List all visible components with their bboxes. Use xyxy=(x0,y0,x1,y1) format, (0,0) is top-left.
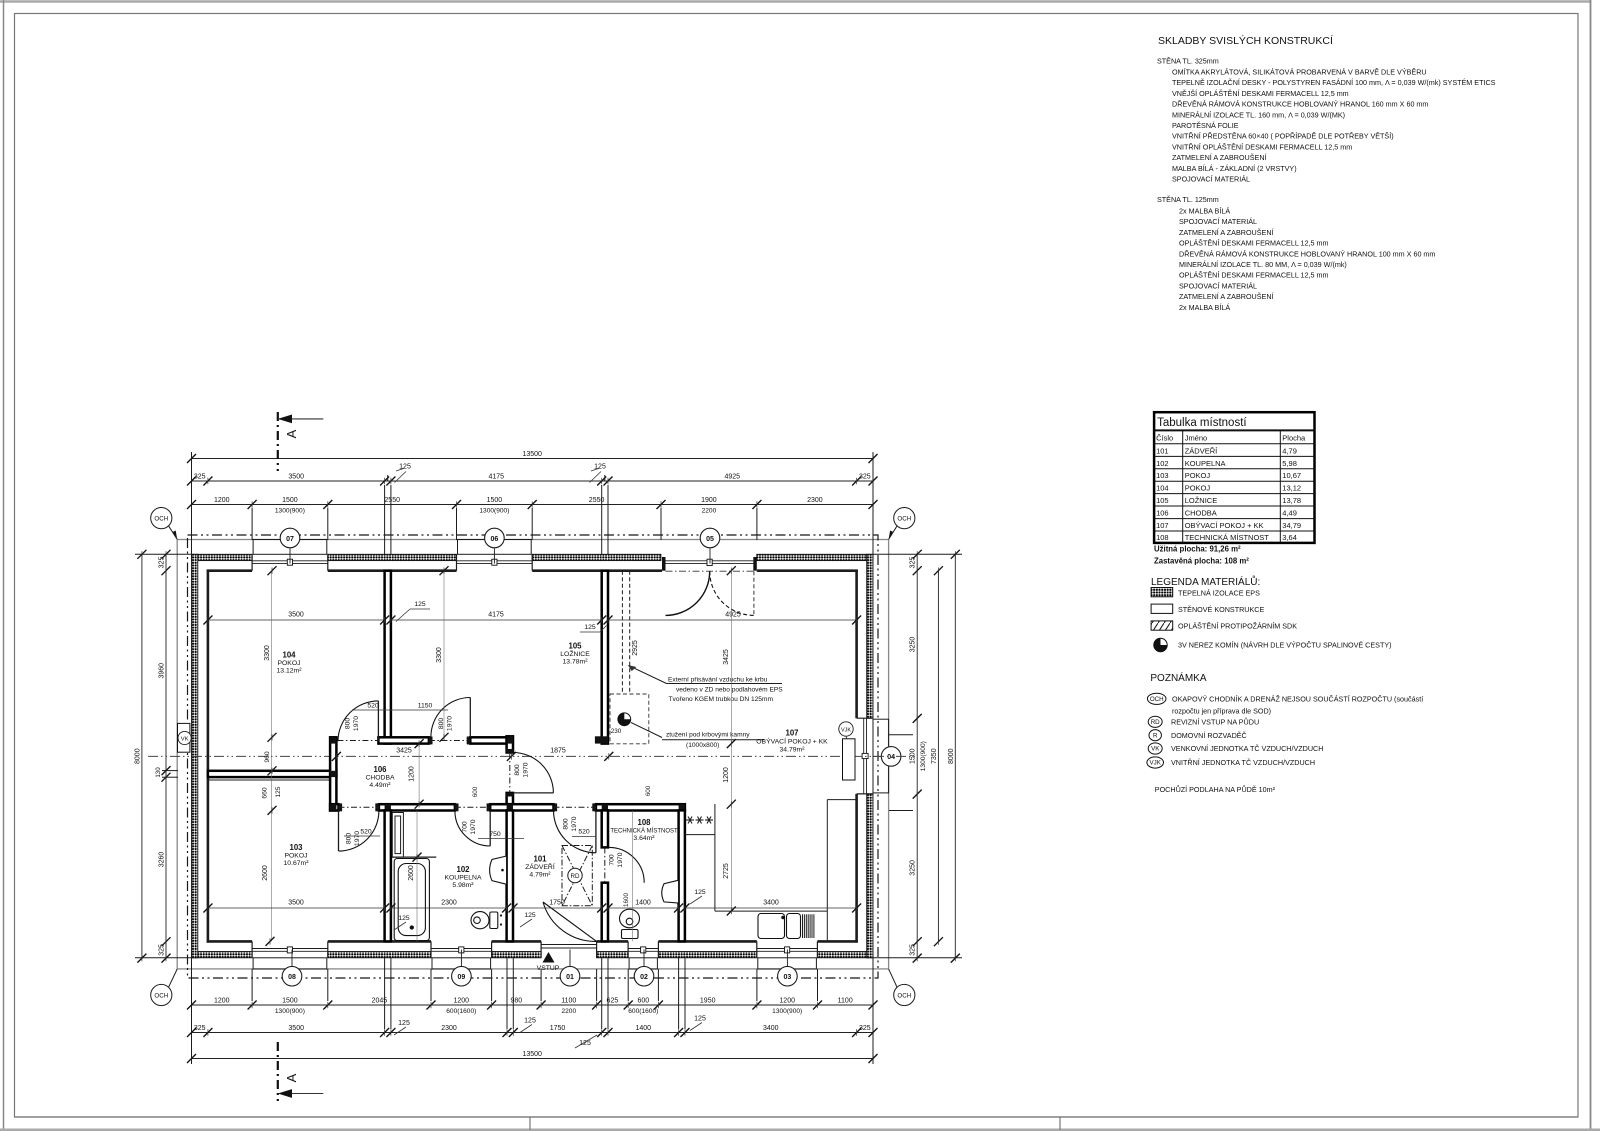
dim 600 labels xyxy=(472,785,652,797)
svg-text:101: 101 xyxy=(533,855,547,864)
wall W2 bottom cap xyxy=(595,736,608,743)
svg-text:PAROTĚSNÁ FOLIE: PAROTĚSNÁ FOLIE xyxy=(1172,121,1239,130)
svg-text:106: 106 xyxy=(1156,508,1169,517)
svg-text:OCH: OCH xyxy=(154,516,168,523)
svg-text:1970: 1970 xyxy=(617,852,624,867)
svg-text:2550: 2550 xyxy=(384,497,400,504)
svg-text:OCH: OCH xyxy=(897,993,911,1000)
door to room 104 xyxy=(338,701,378,741)
room label 107 xyxy=(756,729,828,754)
svg-text:09: 09 xyxy=(458,974,466,981)
french door right leaf arc dashed xyxy=(710,571,754,615)
svg-text:125: 125 xyxy=(398,1020,410,1027)
svg-text:800: 800 xyxy=(514,764,521,776)
wall junction blacks xyxy=(330,736,685,810)
RD cabinet dash-dot with cross xyxy=(562,846,592,906)
svg-text:POKOJ: POKOJ xyxy=(284,853,307,860)
svg-text:106: 106 xyxy=(373,765,387,774)
svg-text:3300: 3300 xyxy=(264,645,271,661)
svg-text:750: 750 xyxy=(489,831,501,838)
dimension extension lines xyxy=(135,452,962,1064)
svg-text:A: A xyxy=(284,429,299,438)
svg-text:CHODBA: CHODBA xyxy=(1185,508,1217,517)
svg-text:MALBA BÍLÁ - ZÁKLADNÍ (2 VRSTV: MALBA BÍLÁ - ZÁKLADNÍ (2 VRSTVY) xyxy=(1172,164,1297,173)
VK outdoor unit left xyxy=(178,723,192,752)
svg-text:1400: 1400 xyxy=(635,900,651,907)
svg-text:1200: 1200 xyxy=(723,767,730,783)
room table header xyxy=(1156,434,1306,443)
svg-text:13.78m²: 13.78m² xyxy=(563,659,589,666)
svg-text:3250: 3250 xyxy=(910,637,917,653)
svg-text:REVIZNÍ VSTUP NA PŮDU: REVIZNÍ VSTUP NA PŮDU xyxy=(1171,718,1259,727)
svg-text:VENKOVNÍ JEDNOTKA TČ VZDUCH/VZ: VENKOVNÍ JEDNOTKA TČ VZDUCH/VZDUCH xyxy=(1171,744,1323,753)
wall composition 325mm text block xyxy=(1157,57,1496,184)
corridor west wall xyxy=(330,737,336,810)
svg-text:LOŽNICE: LOŽNICE xyxy=(1185,496,1218,505)
svg-text:VJK: VJK xyxy=(1150,760,1162,767)
OCH circle top right with leader xyxy=(889,507,915,539)
svg-text:2300: 2300 xyxy=(441,900,457,907)
svg-text:1200: 1200 xyxy=(409,766,416,782)
legend fire-protection SDK symbol xyxy=(1151,621,1297,631)
svg-text:TECHNICKÁ MÍSTNOST: TECHNICKÁ MÍSTNOST xyxy=(1185,533,1270,542)
svg-text:1400: 1400 xyxy=(636,1025,652,1032)
washbasin bathroom xyxy=(490,856,507,884)
toilet technical room xyxy=(620,909,640,938)
svg-text:RD: RD xyxy=(571,873,580,880)
wall W1 bottom cap xyxy=(378,736,391,744)
svg-text:125: 125 xyxy=(694,1016,706,1023)
door corridor to living room xyxy=(513,752,553,792)
svg-text:125: 125 xyxy=(414,601,426,608)
svg-text:1950: 1950 xyxy=(700,998,716,1005)
svg-text:230: 230 xyxy=(611,728,622,735)
svg-text:1200: 1200 xyxy=(779,998,795,1005)
svg-text:4175: 4175 xyxy=(489,474,505,481)
svg-text:2600: 2600 xyxy=(262,865,269,881)
legend chimney symbol xyxy=(1154,638,1392,651)
technical room east wall xyxy=(679,810,685,941)
svg-text:2200: 2200 xyxy=(561,1008,576,1015)
window bottom W2 xyxy=(431,950,492,952)
svg-text:STĚNOVÉ KONSTRUKCE: STĚNOVÉ KONSTRUKCE xyxy=(1178,605,1264,614)
dim col right segments xyxy=(910,550,928,963)
dim col right 8000 xyxy=(948,550,960,963)
svg-text:13500: 13500 xyxy=(522,1051,542,1058)
svg-text:OKAPOVÝ CHODNÍK A DRENÁŽ NEJSO: OKAPOVÝ CHODNÍK A DRENÁŽ NEJSOU SOUČÁSTÍ… xyxy=(1172,695,1423,704)
svg-text:8000: 8000 xyxy=(134,748,141,764)
svg-text:600: 600 xyxy=(472,786,479,797)
svg-text:10.67m²: 10.67m² xyxy=(284,860,310,867)
note RD xyxy=(1148,716,1259,727)
svg-text:13500: 13500 xyxy=(522,451,542,458)
dim col left 8000 xyxy=(134,550,146,963)
svg-text:1900: 1900 xyxy=(701,497,717,504)
svg-text:ZÁDVEŘÍ: ZÁDVEŘÍ xyxy=(525,862,555,871)
dim row bottom segments xyxy=(187,1025,878,1037)
door size labels xyxy=(345,716,625,868)
french door open leaf dashed jamb xyxy=(753,571,755,615)
svg-text:800: 800 xyxy=(346,833,353,845)
svg-text:960: 960 xyxy=(264,751,271,763)
svg-text:980: 980 xyxy=(510,998,522,1005)
svg-text:4.49m²: 4.49m² xyxy=(369,782,391,789)
svg-text:4,49: 4,49 xyxy=(1282,508,1297,517)
svg-text:325: 325 xyxy=(910,944,917,956)
svg-text:2200: 2200 xyxy=(702,508,717,515)
kitchen counter outline xyxy=(685,800,857,942)
bathroom-zadveri wall xyxy=(507,810,513,941)
svg-text:1300(900): 1300(900) xyxy=(275,508,305,515)
interior dim bathroom vertical line xyxy=(413,810,422,941)
svg-text:107: 107 xyxy=(1156,521,1169,530)
wall 105-107 W2 xyxy=(602,571,608,744)
svg-text:SPOJOVACÍ MATERIÁL: SPOJOVACÍ MATERIÁL xyxy=(1179,217,1257,226)
window bottom W3 xyxy=(628,950,658,952)
interior dim zadveri 1750-175 xyxy=(509,900,607,928)
svg-text:1100: 1100 xyxy=(561,998,576,1005)
dim row top windows xyxy=(187,497,878,515)
window top W1 xyxy=(252,560,328,562)
svg-text:POKOJ: POKOJ xyxy=(277,660,300,667)
window bottom W4 xyxy=(757,950,818,952)
svg-text:R: R xyxy=(1153,732,1158,739)
dim col left small 130 xyxy=(155,767,162,778)
svg-text:325: 325 xyxy=(159,557,166,569)
svg-text:vedeno v ZD nebo podlahovém EP: vedeno v ZD nebo podlahovém EPS xyxy=(676,687,783,694)
svg-text:SKLADBY SVISLÝCH KONSTRUKCÍ: SKLADBY SVISLÝCH KONSTRUKCÍ xyxy=(1158,34,1333,47)
svg-text:3500: 3500 xyxy=(288,1025,304,1032)
svg-text:2725: 2725 xyxy=(723,863,730,879)
svg-text:RD: RD xyxy=(1151,719,1160,726)
corridor east wall with door stubs xyxy=(507,736,513,804)
svg-text:Tvořeno KGEM trubkou DN 125mm: Tvořeno KGEM trubkou DN 125mm xyxy=(669,696,774,703)
svg-text:07: 07 xyxy=(286,536,294,543)
fireplace stiffening text xyxy=(666,732,750,750)
french door lintel dash-dot xyxy=(666,570,754,572)
exterior wall top hatch band xyxy=(192,554,874,560)
svg-text:MINERÁLNÍ IZOLACE TL. 80 MM, Λ: MINERÁLNÍ IZOLACE TL. 80 MM, Λ = 0,039 W… xyxy=(1179,260,1347,269)
svg-text:1750: 1750 xyxy=(549,900,565,907)
svg-text:1300(900): 1300(900) xyxy=(920,741,927,771)
svg-text:3400: 3400 xyxy=(763,900,779,907)
svg-text:108: 108 xyxy=(637,818,651,827)
svg-text:660: 660 xyxy=(262,787,269,799)
exterior wall inner face bottom xyxy=(207,940,858,943)
svg-text:102: 102 xyxy=(456,865,470,874)
wall 104-103 A xyxy=(208,771,337,777)
svg-text:700: 700 xyxy=(462,821,469,833)
interior dim corridor 1200 xyxy=(409,739,424,809)
svg-text:1600: 1600 xyxy=(623,893,630,908)
svg-text:125: 125 xyxy=(579,1040,591,1047)
svg-text:520: 520 xyxy=(360,829,372,836)
svg-text:ztužení pod krbovými kamny: ztužení pod krbovými kamny xyxy=(666,732,750,739)
window sills outside xyxy=(253,540,889,970)
svg-text:TECHNICKÁ MÍSTNOST: TECHNICKÁ MÍSTNOST xyxy=(610,828,678,835)
entrance VSTUP triangle xyxy=(543,952,555,963)
svg-text:4,79: 4,79 xyxy=(1282,446,1297,455)
bathroom west wall xyxy=(385,810,391,941)
svg-text:4175: 4175 xyxy=(488,612,504,619)
dim row bottom 125 labels xyxy=(394,1016,706,1049)
svg-text:DŘEVĚNÁ RÁMOVÁ KONSTRUKCE HOBL: DŘEVĚNÁ RÁMOVÁ KONSTRUKCE HOBLOVANÝ HRAN… xyxy=(1172,100,1428,109)
svg-text:105: 105 xyxy=(1156,496,1169,505)
svg-text:108: 108 xyxy=(1156,533,1169,542)
svg-text:3300: 3300 xyxy=(436,647,443,663)
svg-text:800: 800 xyxy=(345,718,352,730)
note VJK xyxy=(1147,757,1315,768)
interior dim technical vertical line xyxy=(632,811,634,942)
svg-text:VNITŘNÍ JEDNOTKA TČ VZDUCH/VZD: VNITŘNÍ JEDNOTKA TČ VZDUCH/VZDUCH xyxy=(1171,758,1315,767)
svg-text:TEPELNĚ IZOLAČNÍ DESKY - POLYS: TEPELNĚ IZOLAČNÍ DESKY - POLYSTYREN FASÁ… xyxy=(1172,78,1496,87)
svg-text:3500: 3500 xyxy=(288,474,304,481)
window top W2 xyxy=(457,560,533,562)
svg-text:5,98: 5,98 xyxy=(1282,459,1297,468)
svg-text:05: 05 xyxy=(706,536,714,543)
svg-text:600: 600 xyxy=(645,785,652,796)
door to room 105 xyxy=(431,698,470,737)
dim 1150 label xyxy=(391,703,448,711)
OCH circle bottom right with leader xyxy=(889,969,915,1006)
interior dim chain x731 xyxy=(723,566,736,915)
svg-text:125: 125 xyxy=(524,912,536,919)
svg-text:TEPELNÁ IZOLACE EPS: TEPELNÁ IZOLACE EPS xyxy=(1178,589,1260,598)
dim row top 13500 xyxy=(187,451,878,463)
note OCH xyxy=(1147,693,1423,715)
interior dim 125 leaders row xyxy=(396,601,607,632)
svg-text:(1000x800): (1000x800) xyxy=(686,742,719,749)
entrance door swing arc xyxy=(543,902,597,941)
door to room 103 xyxy=(339,811,379,851)
OCH drainage dash-dot boundary xyxy=(188,535,879,978)
interior vertical dim 105 3300 xyxy=(436,566,449,742)
svg-text:101: 101 xyxy=(1156,446,1169,455)
svg-text:OCH: OCH xyxy=(154,993,168,1000)
kitchen stove symbol xyxy=(686,817,713,824)
svg-text:Externí přisávání vzduchu ke k: Externí přisávání vzduchu ke krbu xyxy=(668,677,768,684)
svg-text:125: 125 xyxy=(584,624,596,631)
svg-text:1875: 1875 xyxy=(550,748,566,755)
svg-text:3260: 3260 xyxy=(159,852,166,868)
svg-text:LOŽNICE: LOŽNICE xyxy=(560,649,590,658)
exterior wall bottom hatch band xyxy=(192,952,874,958)
wall 104-105 W1 xyxy=(385,571,391,744)
svg-text:3500: 3500 xyxy=(288,900,304,907)
svg-text:ZATMELENÍ A ZABROUŠENÍ: ZATMELENÍ A ZABROUŠENÍ xyxy=(1179,292,1274,301)
svg-text:1100: 1100 xyxy=(838,998,853,1005)
OCH circle bottom left with leader xyxy=(151,969,178,1006)
svg-text:ZÁDVEŘÍ: ZÁDVEŘÍ xyxy=(1185,446,1218,455)
svg-text:3425: 3425 xyxy=(396,748,412,755)
svg-text:LEGENDA MATERIÁLŮ:: LEGENDA MATERIÁLŮ: xyxy=(1151,575,1260,588)
svg-text:103: 103 xyxy=(289,843,303,852)
svg-text:2600: 2600 xyxy=(408,865,415,881)
svg-text:600(1600): 600(1600) xyxy=(628,1008,658,1015)
section marker A top xyxy=(278,412,324,471)
svg-text:8000: 8000 xyxy=(948,748,955,764)
exterior wall left hatch band xyxy=(192,554,198,958)
svg-text:125: 125 xyxy=(694,889,706,896)
french door jambs xyxy=(662,557,757,571)
svg-text:ZATMELENÍ A ZABROUŠENÍ: ZATMELENÍ A ZABROUŠENÍ xyxy=(1172,153,1267,162)
svg-text:125: 125 xyxy=(398,915,410,922)
svg-text:104: 104 xyxy=(1156,484,1169,493)
interior dim room 104 3500 xyxy=(203,612,389,625)
fireplace air supply text xyxy=(668,677,783,704)
svg-text:DOMOVNÍ ROZVADĚČ: DOMOVNÍ ROZVADĚČ xyxy=(1171,731,1247,740)
toilet bathroom xyxy=(471,912,502,929)
svg-text:1500: 1500 xyxy=(282,998,298,1005)
svg-text:2925: 2925 xyxy=(632,640,639,656)
svg-text:13.12m²: 13.12m² xyxy=(277,668,303,675)
svg-text:OBÝVACÍ POKOJ + KK: OBÝVACÍ POKOJ + KK xyxy=(1185,521,1264,530)
svg-text:600: 600 xyxy=(637,998,649,1005)
svg-text:1500: 1500 xyxy=(282,497,298,504)
corner washbasin technical room xyxy=(662,880,679,903)
french door glazing line xyxy=(666,559,754,565)
svg-text:04: 04 xyxy=(887,754,895,761)
svg-text:700: 700 xyxy=(609,854,616,866)
svg-text:CHODBA: CHODBA xyxy=(365,775,395,782)
svg-text:10,67: 10,67 xyxy=(1282,471,1301,480)
svg-text:06: 06 xyxy=(491,536,499,543)
axis dims corridor xyxy=(332,748,613,761)
svg-text:OCH: OCH xyxy=(897,516,911,523)
room table frame xyxy=(1154,412,1314,543)
svg-text:MINERÁLNÍ IZOLACE TL. 160 mm,: MINERÁLNÍ IZOLACE TL. 160 mm, Λ = 0,039 … xyxy=(1172,110,1345,119)
dim row bottom 13500 xyxy=(187,1051,878,1063)
window bottom W1 xyxy=(252,950,328,952)
svg-text:325: 325 xyxy=(910,557,917,569)
svg-text:Užitná plocha: 91,26 m²: Užitná plocha: 91,26 m² xyxy=(1154,545,1241,554)
svg-text:rozpočtu jen příprava dle SOD): rozpočtu jen příprava dle SOD) xyxy=(1172,707,1271,716)
door to bathroom 102 xyxy=(455,811,490,846)
svg-text:1300(900): 1300(900) xyxy=(772,1008,802,1015)
svg-text:KOUPELNA: KOUPELNA xyxy=(1185,459,1226,468)
svg-text:VNITŘNÍ OPLÁŠTĚNÍ DESKAMI FERM: VNITŘNÍ OPLÁŠTĚNÍ DESKAMI FERMACELL 12,5… xyxy=(1172,142,1352,151)
bathroom tall cabinet xyxy=(392,813,436,858)
fireplace annotation leader xyxy=(629,666,782,740)
svg-text:1970: 1970 xyxy=(523,762,530,777)
svg-text:DŘEVĚNÁ RÁMOVÁ KONSTRUKCE HOBL: DŘEVĚNÁ RÁMOVÁ KONSTRUKCE HOBLOVANÝ HRAN… xyxy=(1179,249,1435,258)
svg-text:1300(900): 1300(900) xyxy=(479,508,509,515)
grid circles bottom xyxy=(282,950,797,987)
svg-text:2300: 2300 xyxy=(807,497,823,504)
svg-text:5.98m²: 5.98m² xyxy=(452,882,474,889)
chimney symbol in plan xyxy=(618,713,631,726)
svg-text:SPOJOVACÍ MATERIÁL: SPOJOVACÍ MATERIÁL xyxy=(1179,281,1257,290)
dim col right 7350 xyxy=(931,566,943,946)
svg-text:1200: 1200 xyxy=(214,497,230,504)
svg-text:520: 520 xyxy=(578,829,590,836)
svg-text:13,12: 13,12 xyxy=(1282,484,1301,493)
svg-text:OPLÁŠTĚNÍ DESKAMI FERMACELL 12: OPLÁŠTĚNÍ DESKAMI FERMACELL 12,5 mm xyxy=(1179,239,1329,248)
section marker A bottom xyxy=(278,1042,324,1101)
svg-text:Tabulka místností: Tabulka místností xyxy=(1157,417,1247,429)
bathtub xyxy=(394,859,429,941)
svg-text:34.79m²: 34.79m² xyxy=(780,747,806,754)
svg-text:104: 104 xyxy=(282,651,296,660)
interior dim living 4925 xyxy=(604,612,862,625)
door to technical room 108 xyxy=(609,847,644,882)
svg-text:34,79: 34,79 xyxy=(1282,521,1301,530)
door to zadveri 101 from hall xyxy=(554,810,596,852)
svg-text:3960: 3960 xyxy=(159,663,166,679)
svg-text:VJK: VJK xyxy=(841,727,851,733)
svg-text:1500: 1500 xyxy=(910,748,917,764)
svg-text:2300: 2300 xyxy=(441,1025,457,1032)
svg-text:13,78: 13,78 xyxy=(1282,496,1301,505)
svg-text:1970: 1970 xyxy=(447,716,454,731)
interior dim bathroom 2300 xyxy=(386,900,511,931)
svg-text:3V NEREZ KOMÍN (NÁVRH DLE VÝPO: 3V NEREZ KOMÍN (NÁVRH DLE VÝPOČTU SPALIN… xyxy=(1178,641,1392,650)
dim 750 label xyxy=(478,831,524,839)
svg-text:Číslo: Číslo xyxy=(1156,434,1173,443)
svg-text:103: 103 xyxy=(1156,471,1169,480)
note VK xyxy=(1148,743,1323,754)
dim col left segments xyxy=(159,550,171,963)
svg-text:VNĚJŠÍ OPLÁŠTĚNÍ DESKAMI FERMA: VNĚJŠÍ OPLÁŠTĚNÍ DESKAMI FERMACELL 12,5 … xyxy=(1172,89,1349,98)
svg-text:1970: 1970 xyxy=(353,716,360,731)
interior dim room 103 3500 xyxy=(203,900,389,913)
svg-text:Jméno: Jméno xyxy=(1185,434,1208,443)
svg-text:Plocha: Plocha xyxy=(1282,434,1306,443)
svg-text:7350: 7350 xyxy=(931,748,938,764)
svg-text:1500: 1500 xyxy=(487,497,503,504)
svg-text:OPLÁŠTĚNÍ PROTIPOŽÁRNÍM SDK: OPLÁŠTĚNÍ PROTIPOŽÁRNÍM SDK xyxy=(1178,622,1297,631)
exterior wall inner face top xyxy=(207,569,858,572)
svg-text:1750: 1750 xyxy=(550,1025,566,1032)
grid circles top xyxy=(280,528,720,563)
svg-text:325: 325 xyxy=(159,944,166,956)
svg-text:SPOJOVACÍ MATERIÁL: SPOJOVACÍ MATERIÁL xyxy=(1172,175,1250,184)
svg-text:08: 08 xyxy=(288,974,296,981)
door dim 520 labels xyxy=(344,703,596,837)
svg-text:1150: 1150 xyxy=(418,703,433,710)
svg-text:325: 325 xyxy=(859,1025,871,1032)
chimney duct dashed lines xyxy=(622,571,629,694)
title block top line xyxy=(15,1117,1579,1130)
svg-text:VK: VK xyxy=(1151,746,1160,753)
svg-text:4925: 4925 xyxy=(725,474,741,481)
grid circle 04 right xyxy=(873,747,901,767)
svg-text:1300(900): 1300(900) xyxy=(275,1008,305,1015)
svg-text:POCHŮZÍ PODLAHA NA PŮDĚ 10m²: POCHŮZÍ PODLAHA NA PŮDĚ 10m² xyxy=(1155,785,1276,794)
svg-text:OMÍTKA AKRYLÁTOVÁ, SILIKÁTOVÁ: OMÍTKA AKRYLÁTOVÁ, SILIKÁTOVÁ PROBARVENÁ… xyxy=(1172,68,1427,77)
svg-text:2x MALBA BÍLÁ: 2x MALBA BÍLÁ xyxy=(1179,303,1230,312)
fireplace stiffening dashed rectangle xyxy=(610,694,649,744)
corridor top wall H1 segments xyxy=(378,737,506,743)
svg-text:3250: 3250 xyxy=(910,860,917,876)
svg-text:325: 325 xyxy=(194,474,206,481)
svg-text:125: 125 xyxy=(275,786,282,797)
svg-text:STĚNA TL. 325mm: STĚNA TL. 325mm xyxy=(1157,57,1219,66)
interior dim 2925 duct xyxy=(632,640,639,656)
window right wall xyxy=(857,718,873,794)
svg-text:4925: 4925 xyxy=(725,612,741,619)
svg-text:POKOJ: POKOJ xyxy=(1185,484,1211,493)
interior dim room 105 4175 xyxy=(386,612,606,625)
svg-text:3500: 3500 xyxy=(288,612,304,619)
svg-text:105: 105 xyxy=(568,642,582,651)
svg-text:VSTUP: VSTUP xyxy=(537,965,560,972)
svg-text:OBÝVACÍ POKOJ + KK: OBÝVACÍ POKOJ + KK xyxy=(756,737,828,746)
legend wall construction symbol xyxy=(1151,604,1264,614)
door jamb caps xyxy=(339,737,609,887)
room label 108 xyxy=(610,818,678,842)
VJK indoor unit right xyxy=(839,722,855,780)
